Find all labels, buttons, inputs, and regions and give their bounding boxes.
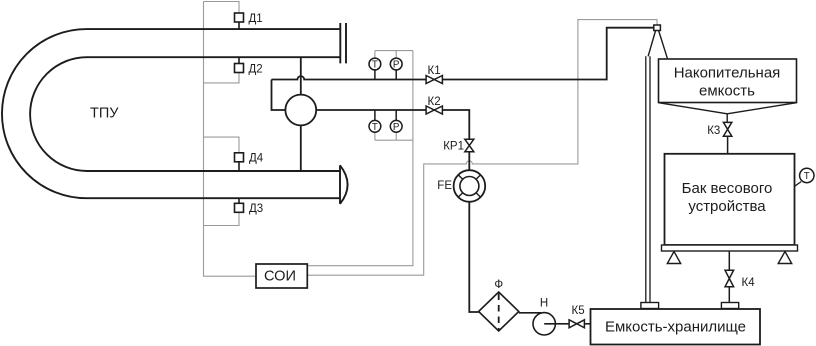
svg-text:Емкость-хранилище: Емкость-хранилище <box>605 318 746 335</box>
svg-text:Д2: Д2 <box>249 64 263 76</box>
svg-text:К2: К2 <box>428 96 441 108</box>
svg-text:Т: Т <box>372 60 378 71</box>
svg-text:Н: Н <box>540 298 548 310</box>
svg-text:К1: К1 <box>428 65 441 77</box>
svg-text:Т: Т <box>804 171 810 182</box>
svg-text:К4: К4 <box>742 277 756 289</box>
svg-text:Накопительная: Накопительная <box>674 64 781 81</box>
svg-text:КР1: КР1 <box>443 141 464 153</box>
svg-text:Бак весового: Бак весового <box>682 180 773 197</box>
svg-text:СОИ: СОИ <box>264 268 296 284</box>
svg-text:емкость: емкость <box>699 83 755 100</box>
svg-text:Р: Р <box>393 122 400 133</box>
svg-text:К5: К5 <box>572 305 585 317</box>
svg-text:ТПУ: ТПУ <box>90 106 119 122</box>
svg-text:устройства: устройства <box>688 198 766 215</box>
svg-text:Д1: Д1 <box>249 13 263 25</box>
svg-text:Д3: Д3 <box>249 203 263 215</box>
svg-text:FE: FE <box>437 180 452 192</box>
svg-text:Т: Т <box>372 122 378 133</box>
svg-text:Ф: Ф <box>494 279 503 291</box>
svg-text:Р: Р <box>393 60 400 71</box>
svg-text:Д4: Д4 <box>249 153 264 165</box>
svg-text:К3: К3 <box>707 125 720 137</box>
